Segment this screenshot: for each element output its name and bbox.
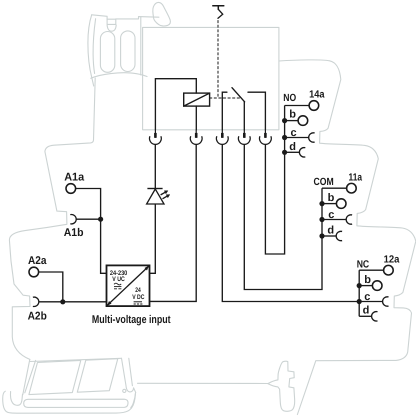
DIN rail inner curl	[10, 392, 22, 406]
svg-text:V DC: V DC	[132, 294, 144, 301]
svg-text:d: d	[289, 141, 296, 153]
svg-text:c: c	[364, 291, 370, 303]
pin 3	[216, 130, 228, 145]
svg-text:Multi-voltage input: Multi-voltage input	[92, 314, 171, 326]
terminal NC b	[372, 281, 382, 291]
NC terminal group	[359, 265, 393, 321]
wire A1 junction to converter	[101, 219, 107, 273]
wire pin4 to COM bus	[244, 144, 322, 289]
COM terminal group	[322, 183, 356, 240]
bowl under latch	[107, 25, 116, 31]
terminal A2a	[29, 267, 39, 277]
terminal NC d socket	[372, 312, 378, 321]
mechanical link dashed horizontal	[210, 97, 242, 99]
LED arrows	[161, 191, 170, 199]
pin 4	[238, 130, 250, 145]
svg-text:COM: COM	[314, 177, 334, 188]
test button zigzag	[218, 9, 223, 18]
svg-text:11a: 11a	[349, 172, 363, 183]
UC symbol	[114, 283, 121, 289]
terminal NO c socket	[309, 133, 315, 142]
dome arc under lever	[91, 73, 147, 79]
COM bus wire	[321, 188, 323, 236]
lever inner contour	[93, 19, 96, 74]
DC symbol	[134, 302, 143, 304]
svg-text:A1a: A1a	[64, 171, 85, 183]
pin 2	[190, 130, 202, 145]
relay enclosure K1	[143, 27, 279, 129]
junction A1	[98, 217, 103, 222]
svg-text:A1b: A1b	[64, 227, 84, 239]
wire COM c	[322, 219, 346, 221]
svg-text:c: c	[328, 209, 334, 221]
svg-text:b: b	[364, 274, 371, 286]
lever assembly outer contour	[92, 15, 159, 75]
housing left stepped profile	[9, 78, 95, 359]
wire NC d	[359, 315, 371, 317]
svg-text:NO: NO	[283, 93, 296, 104]
latch pin square top	[107, 18, 116, 20]
wire A2a to junction	[38, 272, 62, 302]
wire 11a	[322, 187, 347, 189]
COM contact wire	[243, 102, 245, 130]
wire 12a	[359, 269, 384, 271]
right slot pill	[121, 31, 135, 72]
rail top face section 1	[29, 360, 81, 394]
wire pin5 to NO bus	[265, 144, 284, 254]
wire coil bottom	[195, 106, 197, 130]
junction NO c	[282, 135, 287, 140]
junction NC c	[357, 299, 362, 304]
wire NC b	[359, 285, 372, 287]
svg-text:V UC: V UC	[112, 276, 125, 283]
junction NO d	[282, 150, 287, 155]
terminal 14a	[309, 101, 319, 111]
rail lip right	[122, 358, 136, 407]
wire A1b to junction	[76, 218, 100, 220]
module left clamp leg lines	[23, 359, 30, 394]
contact arm	[232, 88, 245, 102]
plug-in pins at relay base	[150, 130, 272, 145]
svg-text:A2b: A2b	[28, 311, 47, 323]
svg-text:d: d	[363, 305, 370, 317]
rail back edge line	[138, 382, 268, 384]
terminal COM c socket	[346, 215, 352, 224]
left slot pill	[100, 32, 114, 73]
DIN rail outer outline	[3, 391, 136, 413]
NO terminal group	[285, 101, 319, 157]
mechanical link dashed vertical	[217, 21, 219, 99]
wire COM b	[322, 203, 336, 205]
NC fixed contact	[222, 92, 227, 130]
junction COM d	[319, 233, 324, 238]
terminal NO d socket	[299, 148, 305, 157]
terminal NO b	[298, 116, 308, 126]
junction A2	[60, 299, 65, 304]
terminal 12a	[384, 265, 394, 275]
converter diagonal	[107, 266, 149, 305]
wire 14a	[285, 105, 310, 107]
junction COM c	[319, 217, 324, 222]
rail band top edge	[30, 358, 122, 361]
wire A2b to junction	[39, 301, 63, 303]
release hook	[153, 2, 171, 26]
junction NC b	[357, 283, 362, 288]
module right rail clamp	[268, 361, 295, 411]
svg-text:A2a: A2a	[28, 255, 47, 267]
wire pin2 down	[150, 144, 196, 301]
svg-text:NC: NC	[357, 260, 370, 271]
wire NO b	[285, 120, 299, 122]
svg-text:14a: 14a	[309, 90, 325, 101]
terminal A1b socket	[70, 215, 76, 224]
pin 5	[260, 130, 272, 145]
NO fixed contact	[248, 92, 265, 130]
wire A2 junction to converter	[63, 301, 107, 303]
rail bottom slot	[24, 399, 128, 407]
wire NO c	[285, 137, 309, 139]
svg-text:b: b	[328, 192, 335, 204]
terminal COM b	[336, 199, 346, 209]
terminal A1a	[66, 184, 76, 194]
multi-voltage converter U1	[107, 265, 150, 306]
rail top face section 2	[77, 359, 118, 393]
svg-text:12a: 12a	[384, 255, 400, 266]
housing right stepped profile	[279, 60, 416, 415]
LED D1	[147, 189, 164, 205]
junction NO b	[282, 118, 287, 123]
wire pin3 to NC bus	[222, 144, 359, 301]
wire A1a to junction	[76, 189, 101, 220]
wire NO d	[285, 151, 300, 153]
terminal A2b socket	[33, 297, 39, 306]
wire pin1 to LED	[154, 144, 156, 188]
wire COM d	[322, 235, 336, 237]
relay coil K1	[184, 93, 210, 106]
wire NC c	[359, 301, 382, 303]
svg-text:d: d	[327, 224, 334, 236]
wire LED to converter	[150, 204, 156, 273]
terminal NC c socket	[383, 297, 389, 306]
pin 1	[150, 130, 162, 145]
svg-text:c: c	[291, 127, 297, 139]
NO bus wire	[284, 106, 286, 153]
schematic (black)	[155, 6, 265, 130]
junction COM b	[319, 201, 324, 206]
svg-text:b: b	[289, 108, 296, 120]
wire coil loop	[155, 79, 196, 130]
terminal 11a	[347, 183, 357, 193]
test button T-bar	[213, 6, 224, 10]
coil diagonal	[184, 93, 210, 106]
terminal COM d socket	[336, 231, 342, 240]
NC bus wire	[358, 270, 360, 316]
